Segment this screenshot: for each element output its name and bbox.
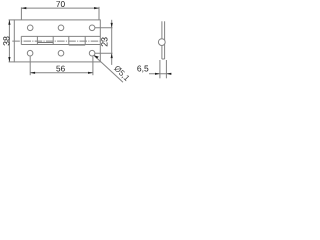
hole diameter leader line [94,55,123,82]
dimension 38: top arrow [8,20,10,25]
dimension 70: left arrow [21,7,26,9]
screw hole top-middle [58,25,64,31]
dimension 23: leader from bottom-right hole [95,52,113,54]
side view leaf right line [164,21,166,59]
dimension 56: dimension line [30,72,93,74]
background [0,0,180,88]
side view leaf bottom cap [162,58,165,60]
dimension 56: extension lines [30,56,93,75]
dimension 38: text [3,36,9,45]
dimension 6,5: right arrow (outside, pointing left) [166,73,171,75]
dimension 6,5: text [137,65,148,72]
hole diameter text [113,65,130,82]
dimension 23: lower arrow (outside, pointing up) [111,53,113,58]
dimension 70: extension lines [21,7,99,20]
knuckle divider 4 [68,36,70,44]
screw hole bottom-left [27,50,33,56]
bottom edge extension to left (38 dim) [9,61,15,63]
side view leaf left line [162,21,165,59]
dimension 70: dimension line [21,7,99,9]
dimension 70: text [56,1,64,7]
dimension 23: leader from top-right hole [95,20,113,65]
knuckle curl inner edge segment 2 [37,42,53,44]
dimension 6,5: dimension line and tails [149,73,172,75]
knuckle curl double edge segment 4 [69,44,85,46]
dimension 23: dimension line [111,20,113,65]
knuckle band top edge [21,35,100,37]
dimension 56: text [56,66,65,72]
side view knuckle barrel circle [158,39,165,46]
dimension 6,5: left arrow (outside, pointing right) [155,73,160,75]
screw hole bottom-right [89,50,95,56]
top edge extension to left (38 dim) [9,19,15,21]
knuckle divider 1 [20,36,22,44]
dimension 23: text [101,37,107,46]
pin center line (dash-dot) [12,40,104,42]
screw hole top-left [27,25,33,31]
screw hole top-right [89,25,95,31]
knuckle divider 2 [36,36,38,44]
dimension 38: dimension line [8,20,10,62]
hinge outline main view [14,20,100,62]
dimension 56: left arrow [30,72,35,74]
knuckle divider 5 [84,36,86,44]
dimension 38: bottom arrow [8,57,10,62]
screw hole bottom-middle [58,50,64,56]
knuckle divider 3 [52,36,54,44]
dimension 56: right arrow [88,72,93,74]
knuckle band bottom edge [21,44,100,46]
hole diameter leader arrow [94,55,99,58]
dimension 6,5: extension lines [149,60,172,78]
dimension 23: upper arrow (outside, pointing down) [111,23,113,28]
dimension 70: right arrow [94,7,99,9]
